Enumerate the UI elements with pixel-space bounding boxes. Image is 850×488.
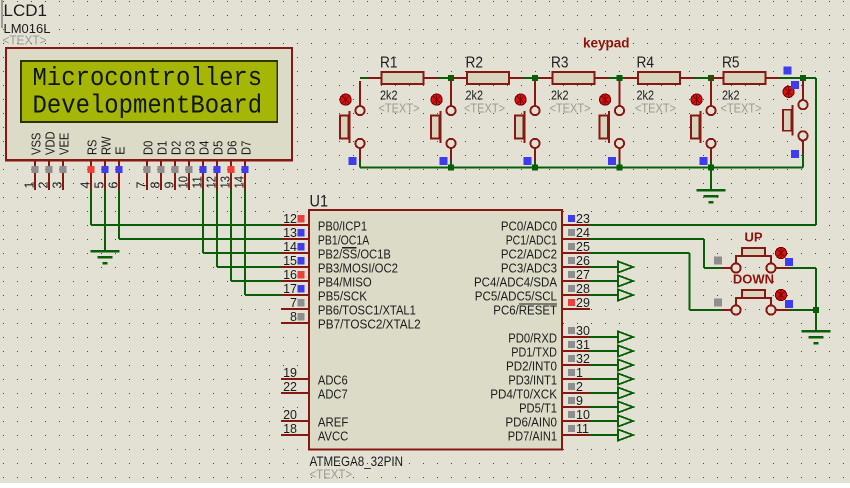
svg-text:2k2: 2k2 — [466, 87, 484, 102]
svg-text:3: 3 — [51, 182, 65, 189]
svg-text:PB6/TOSC1/XTAL1: PB6/TOSC1/XTAL1 — [318, 303, 416, 317]
svg-text:AREF: AREF — [318, 415, 349, 429]
svg-text:24: 24 — [576, 226, 590, 240]
svg-text:PB1/OC1A: PB1/OC1A — [318, 233, 370, 247]
svg-text:AVCC: AVCC — [318, 429, 348, 443]
svg-text:9: 9 — [576, 394, 583, 408]
svg-text:D2: D2 — [168, 141, 183, 155]
svg-text:PC0/ADC0: PC0/ADC0 — [501, 219, 557, 233]
svg-text:19: 19 — [283, 366, 297, 380]
svg-text:PC4/ADC4/SDA: PC4/ADC4/SDA — [474, 275, 558, 289]
svg-text:D3: D3 — [182, 141, 197, 155]
svg-text:R2: R2 — [466, 54, 484, 71]
svg-text:D1: D1 — [154, 141, 169, 155]
svg-text:11: 11 — [576, 422, 589, 436]
svg-text:<TEXT>: <TEXT> — [379, 101, 420, 115]
svg-text:2k2: 2k2 — [722, 87, 740, 102]
svg-text:DOWN: DOWN — [733, 272, 774, 287]
svg-text:14: 14 — [233, 176, 247, 189]
svg-text:<TEXT>: <TEXT> — [3, 34, 47, 48]
svg-text:E: E — [112, 146, 127, 155]
svg-text:11: 11 — [191, 176, 205, 189]
svg-text:2k2: 2k2 — [380, 87, 398, 102]
svg-text:PD3/INT1: PD3/INT1 — [508, 373, 557, 387]
svg-text:29: 29 — [576, 296, 590, 310]
svg-text:6: 6 — [107, 182, 121, 189]
svg-text:PC6/RESET: PC6/RESET — [493, 303, 557, 317]
svg-text:<TEXT>: <TEXT> — [550, 101, 591, 115]
svg-text:R4: R4 — [637, 54, 655, 71]
svg-text:LCD1: LCD1 — [4, 1, 47, 20]
svg-text:23: 23 — [576, 212, 590, 226]
svg-text:<TEXT>: <TEXT> — [635, 101, 676, 115]
svg-text:U1: U1 — [310, 192, 329, 211]
svg-text:8: 8 — [290, 310, 297, 324]
svg-text:PD1/TXD: PD1/TXD — [511, 345, 557, 359]
svg-text:30: 30 — [576, 324, 590, 338]
svg-text:<TEXT>: <TEXT> — [310, 468, 353, 482]
svg-text:27: 27 — [576, 268, 590, 282]
svg-text:2: 2 — [576, 380, 583, 394]
svg-text:keypad: keypad — [583, 36, 630, 51]
svg-text:32: 32 — [576, 352, 590, 366]
svg-text:13: 13 — [283, 226, 297, 240]
svg-text:PC3/ADC3: PC3/ADC3 — [501, 261, 557, 275]
svg-text:UP: UP — [744, 230, 762, 245]
svg-text:ADC6: ADC6 — [318, 373, 348, 387]
svg-text:RS: RS — [84, 139, 99, 155]
svg-text:10: 10 — [177, 176, 191, 189]
svg-text:1: 1 — [23, 182, 37, 189]
svg-text:PD2/INT0: PD2/INT0 — [506, 359, 557, 373]
svg-text:4: 4 — [79, 182, 93, 189]
svg-text:D0: D0 — [140, 141, 155, 155]
svg-text:DevelopmentBoard: DevelopmentBoard — [33, 91, 263, 121]
svg-text:15: 15 — [283, 254, 297, 268]
svg-text:9: 9 — [163, 182, 177, 189]
svg-text:18: 18 — [283, 422, 297, 436]
svg-text:28: 28 — [576, 282, 590, 296]
svg-text:PC2/ADC2: PC2/ADC2 — [501, 247, 557, 261]
svg-text:13: 13 — [219, 176, 233, 189]
svg-text:PD0/RXD: PD0/RXD — [508, 331, 557, 345]
svg-text:Microcontrollers: Microcontrollers — [33, 63, 263, 93]
svg-text:R3: R3 — [551, 54, 569, 71]
svg-text:PB3/MOSI/OC2: PB3/MOSI/OC2 — [318, 261, 398, 275]
svg-text:D7: D7 — [238, 141, 253, 155]
svg-text:26: 26 — [576, 254, 590, 268]
svg-text:PD5/T1: PD5/T1 — [519, 401, 557, 415]
svg-text:12: 12 — [205, 176, 219, 189]
svg-text:10: 10 — [576, 408, 590, 422]
svg-text:2k2: 2k2 — [637, 87, 655, 102]
svg-text:PB0/ICP1: PB0/ICP1 — [318, 219, 367, 233]
svg-text:VDD: VDD — [42, 131, 57, 155]
svg-text:25: 25 — [576, 240, 590, 254]
svg-text:PD7/AIN1: PD7/AIN1 — [508, 429, 557, 443]
svg-text:14: 14 — [283, 240, 297, 254]
svg-text:PC5/ADC5/SCL: PC5/ADC5/SCL — [475, 289, 557, 303]
svg-text:7: 7 — [135, 182, 149, 189]
svg-text:5: 5 — [93, 182, 107, 189]
svg-text:1: 1 — [576, 366, 583, 380]
svg-text:<TEXT>: <TEXT> — [464, 101, 505, 115]
svg-text:PC1/ADC1: PC1/ADC1 — [506, 233, 557, 247]
svg-text:VEE: VEE — [56, 132, 71, 155]
svg-text:2k2: 2k2 — [551, 87, 569, 102]
svg-text:R5: R5 — [722, 54, 740, 71]
svg-text:8: 8 — [149, 182, 163, 189]
svg-text:<TEXT>: <TEXT> — [721, 101, 762, 115]
svg-text:PB5/SCK: PB5/SCK — [318, 289, 368, 303]
svg-text:PB2/SS/OC1B: PB2/SS/OC1B — [318, 247, 391, 261]
svg-text:PD6/AIN0: PD6/AIN0 — [505, 415, 557, 429]
svg-text:7: 7 — [290, 296, 297, 310]
svg-text:17: 17 — [283, 282, 297, 296]
svg-text:16: 16 — [283, 268, 297, 282]
svg-text:22: 22 — [283, 380, 297, 394]
svg-text:20: 20 — [283, 408, 297, 422]
svg-text:ADC7: ADC7 — [318, 387, 348, 401]
svg-text:D5: D5 — [210, 141, 225, 155]
svg-text:VSS: VSS — [28, 132, 43, 155]
svg-text:PD4/T0/XCK: PD4/T0/XCK — [490, 387, 557, 401]
svg-text:PB7/TOSC2/XTAL2: PB7/TOSC2/XTAL2 — [318, 317, 421, 331]
svg-text:31: 31 — [576, 338, 590, 352]
svg-text:R1: R1 — [380, 54, 398, 71]
svg-text:2: 2 — [37, 182, 51, 189]
svg-text:PB4/MISO: PB4/MISO — [318, 275, 372, 289]
svg-text:RW: RW — [98, 136, 113, 155]
svg-text:D6: D6 — [224, 141, 239, 155]
svg-text:12: 12 — [283, 212, 297, 226]
svg-text:D4: D4 — [196, 141, 211, 155]
